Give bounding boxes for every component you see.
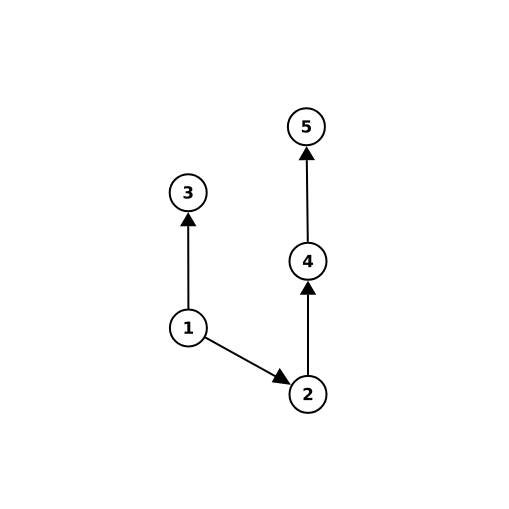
arrowhead 4->5 — [299, 146, 316, 160]
node 5 — [288, 108, 325, 145]
arrowhead 2->4 — [300, 281, 317, 295]
node 4 — [290, 243, 327, 280]
wire edge 1->2 shaft — [205, 338, 278, 379]
arrowhead 1->3 — [180, 212, 197, 226]
wire edge 4->5 shaft — [307, 160, 308, 242]
node 3 — [170, 174, 207, 211]
wire edge 2->4 shaft — [307, 295, 309, 375]
wire edge 1->3 shaft — [187, 226, 189, 308]
node 2 — [290, 376, 327, 413]
node 1 — [170, 310, 207, 347]
arrowhead 1->2 — [272, 368, 291, 385]
